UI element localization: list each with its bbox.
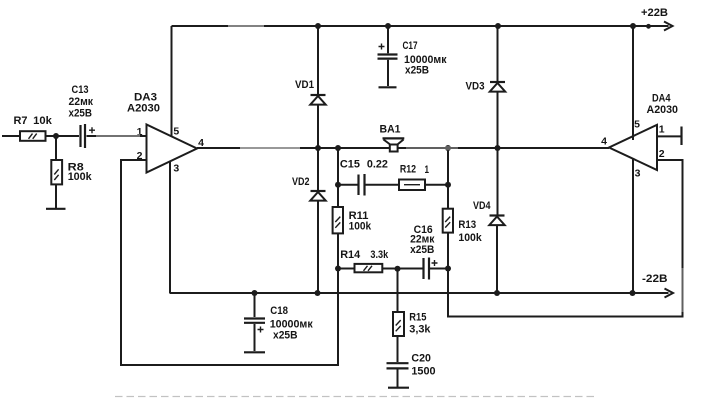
- node row2 left: [335, 266, 341, 272]
- wire down to R8: [55, 136, 57, 160]
- svg-text:x25В: x25В: [69, 108, 93, 120]
- capacitor C16: [410, 224, 448, 280]
- diode VD3: [466, 81, 506, 93]
- resistor R11: [333, 207, 372, 233]
- ground below C18: [244, 351, 265, 353]
- wire output bus right (speaker to DA4 out): [398, 147, 610, 149]
- svg-text:R14: R14: [340, 249, 361, 261]
- svg-text:DA4: DA4: [652, 93, 671, 105]
- op-amp DA4: [601, 93, 678, 180]
- svg-text:100k: 100k: [458, 232, 482, 244]
- wire VD3 VD4 column top: [497, 26, 499, 82]
- svg-text:R15: R15: [409, 312, 426, 324]
- svg-text:BA1: BA1: [380, 124, 401, 136]
- node top rail VD3: [495, 23, 501, 29]
- svg-text:R7: R7: [14, 115, 28, 127]
- svg-text:10k: 10k: [33, 115, 53, 127]
- wire VD1 VD2 column top: [317, 26, 319, 95]
- wire R15 column: [397, 269, 399, 312]
- node -22V C18: [252, 290, 258, 296]
- svg-text:22мк: 22мк: [69, 96, 94, 108]
- svg-text:C13: C13: [72, 84, 89, 96]
- node -22V VD4: [494, 290, 500, 296]
- svg-text:1: 1: [659, 124, 665, 136]
- svg-text:3,3k: 3,3k: [409, 324, 431, 336]
- resistor R15: [393, 312, 431, 337]
- wire input: [2, 135, 20, 137]
- svg-text:C17: C17: [403, 40, 418, 52]
- node row2 R15 tap: [395, 266, 401, 272]
- svg-text:5: 5: [634, 119, 640, 131]
- wire R13 to row2: [447, 233, 449, 269]
- svg-text:C18: C18: [270, 305, 288, 317]
- node top rail C17: [385, 23, 391, 29]
- wire bus branch A down: [337, 148, 339, 207]
- wire fade artifacts: [96, 24, 686, 312]
- svg-text:5: 5: [173, 126, 179, 138]
- wire DA4 pin1 terminal: [657, 127, 682, 146]
- torn page dashed line: [115, 396, 595, 398]
- wire VD2 to -22V: [317, 201, 319, 293]
- node top rail DA4: [630, 23, 651, 29]
- node -22V arrow: [642, 273, 673, 298]
- wire VD1 to bus: [317, 105, 319, 191]
- svg-text:x25В: x25В: [273, 330, 298, 342]
- svg-text:-22В: -22В: [642, 273, 668, 285]
- svg-text:R12: R12: [400, 163, 416, 175]
- resistor R8: [51, 160, 92, 184]
- svg-text:3: 3: [635, 168, 641, 180]
- svg-text:x25В: x25В: [405, 65, 429, 77]
- node +22V arrow: [641, 7, 673, 31]
- capacitor C17: [378, 26, 447, 87]
- wire C13 to DA3 pin1: [87, 135, 147, 137]
- diode VD4: [473, 200, 505, 225]
- svg-text:4: 4: [601, 136, 607, 148]
- resistor R14: [338, 249, 389, 272]
- wire VD4 to -22V: [496, 225, 498, 293]
- svg-text:A2030: A2030: [647, 104, 679, 116]
- node top rail VD1: [315, 23, 321, 29]
- wire DA4 pin5 to +22V: [632, 26, 634, 140]
- node row2 right: [445, 266, 451, 272]
- svg-text:1: 1: [425, 164, 430, 176]
- wire R11 to row2: [337, 233, 339, 268]
- node -22V VD2: [315, 290, 321, 296]
- svg-text:100k: 100k: [349, 221, 372, 233]
- wire R8 to ground: [55, 184, 57, 208]
- svg-text:100k: 100k: [68, 171, 93, 183]
- resistor R12: [399, 163, 429, 190]
- wire VD3 to bus: [497, 92, 499, 215]
- wire DA3 pin3 to -22V: [169, 161, 171, 293]
- wire DA4 pin3 to -22V: [632, 158, 634, 293]
- svg-text:C15: C15: [340, 159, 360, 171]
- svg-text:x25В: x25В: [410, 244, 434, 256]
- wire R12 to node: [425, 184, 448, 186]
- wire R15 to C20: [397, 336, 399, 362]
- wire bottom -22V rail: [170, 292, 669, 294]
- wire output bus left (DA3 out to speaker): [197, 147, 390, 149]
- node bus VD junction: [315, 145, 321, 151]
- node row1 right: [445, 182, 451, 188]
- svg-text:A2030: A2030: [127, 103, 160, 115]
- wire branch B up to bus: [447, 148, 449, 209]
- diode VD2: [292, 176, 326, 201]
- svg-text:1500: 1500: [411, 366, 435, 378]
- svg-text:0.22: 0.22: [367, 159, 388, 171]
- svg-text:3.3k: 3.3k: [370, 249, 389, 261]
- svg-text:C20: C20: [411, 353, 431, 365]
- capacitor C13: [69, 84, 96, 148]
- wire DA3 pin2 feedback loop: [121, 160, 338, 365]
- svg-text:R13: R13: [458, 219, 476, 231]
- wire R7 to C13: [46, 135, 80, 137]
- capacitor C18: [244, 293, 313, 351]
- wire DA4 pin2 feedback loop: [448, 160, 683, 317]
- ground below R8: [46, 208, 66, 210]
- node bus VD34: [495, 145, 501, 151]
- wire R14 to C16: [382, 268, 422, 270]
- svg-text:VD2: VD2: [292, 176, 310, 188]
- wire DA3 pin5 to +22V: [171, 26, 173, 137]
- capacitor C20: [387, 353, 436, 388]
- capacitor C15: [338, 159, 399, 196]
- svg-text:+22В: +22В: [641, 7, 668, 19]
- node bus branch A: [335, 145, 341, 151]
- svg-text:VD4: VD4: [473, 200, 491, 212]
- ground below C20: [388, 387, 409, 389]
- svg-text:VD1: VD1: [295, 79, 314, 91]
- op-amp DA3: [127, 92, 204, 175]
- svg-text:4: 4: [198, 137, 204, 149]
- svg-text:2: 2: [659, 148, 665, 160]
- node row1 left: [335, 182, 341, 188]
- speaker BA1: [380, 124, 405, 152]
- diode VD1: [295, 79, 326, 105]
- node -22V DA4: [630, 290, 636, 296]
- svg-text:VD3: VD3: [466, 81, 485, 93]
- svg-text:3: 3: [173, 163, 179, 175]
- resistor R13: [443, 209, 483, 244]
- node input junction: [53, 133, 59, 139]
- node bus branch B: [445, 145, 451, 151]
- resistor R7: [14, 115, 53, 141]
- wire top +22V rail: [172, 25, 669, 27]
